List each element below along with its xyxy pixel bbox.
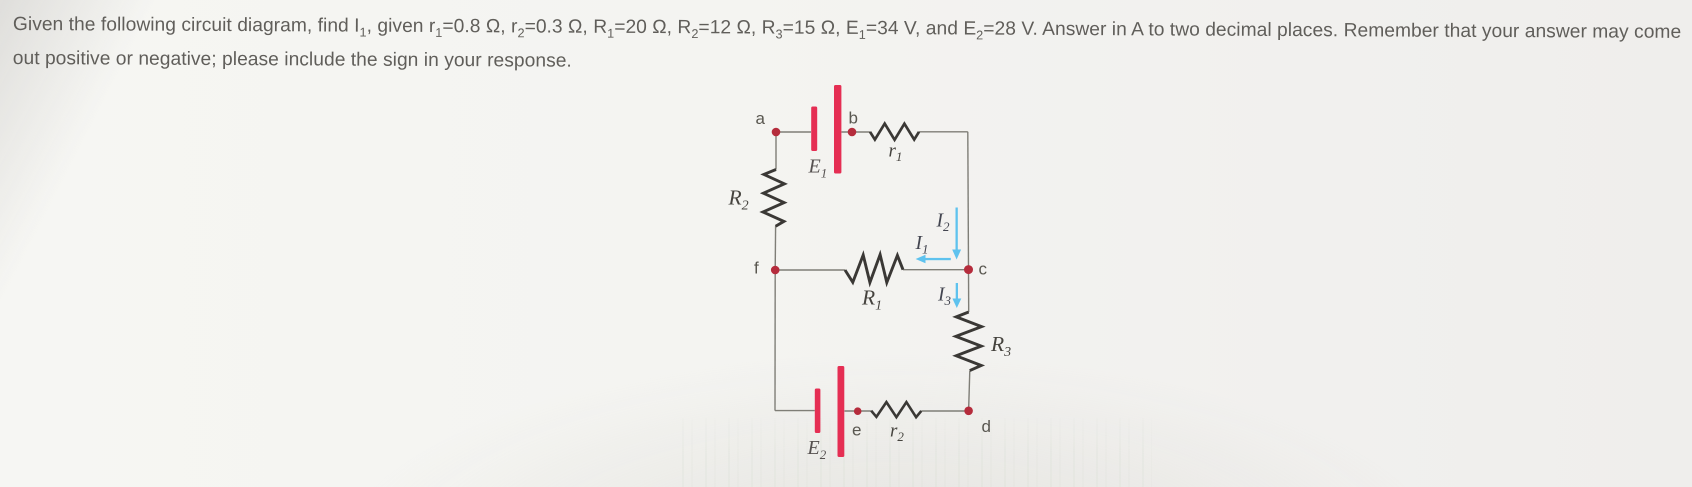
battery E2 positive plate xyxy=(838,366,845,457)
svg-text:I3: I3 xyxy=(937,285,952,309)
wire battery E2 through node e to r2 xyxy=(845,410,872,412)
svg-text:f: f xyxy=(754,259,759,278)
node d junction dot xyxy=(964,407,973,416)
svg-text:r1: r1 xyxy=(889,141,903,165)
svg-text:d: d xyxy=(982,417,991,436)
node b junction dot xyxy=(848,128,857,137)
current arrow I3 xyxy=(952,283,961,308)
svg-text:c: c xyxy=(979,260,988,279)
current arrow I2 xyxy=(952,208,961,260)
resistor R1 xyxy=(845,255,903,283)
wire R2 down to node f xyxy=(774,226,776,270)
battery E1 negative plate xyxy=(811,107,817,152)
wire r2 to node d xyxy=(921,410,968,412)
svg-text:R2: R2 xyxy=(728,186,749,214)
svg-text:e: e xyxy=(852,421,861,440)
svg-text:E1: E1 xyxy=(808,156,828,181)
svg-text:a: a xyxy=(756,109,766,128)
svg-text:R1: R1 xyxy=(861,286,882,314)
svg-text:R3: R3 xyxy=(990,332,1011,360)
wire battery E1 through node b to r1 xyxy=(842,131,871,133)
battery E1 positive plate xyxy=(834,85,841,174)
svg-text:I2: I2 xyxy=(936,211,951,235)
wire r1 to top-right corner xyxy=(919,131,968,133)
wire top-right corner down to node c xyxy=(967,132,970,270)
node f junction dot xyxy=(771,266,780,275)
svg-text:b: b xyxy=(849,109,858,128)
wire node a down to R2 xyxy=(775,132,777,170)
resistor r1 xyxy=(870,124,919,140)
resistor R2 xyxy=(763,170,785,227)
wire R1 to node c xyxy=(903,269,969,271)
svg-text:E2: E2 xyxy=(807,437,827,462)
wire R3 down to node d xyxy=(969,371,970,411)
wire node f down to bottom-left corner xyxy=(774,270,776,411)
wire node a to battery E1 xyxy=(776,131,811,133)
node c junction dot xyxy=(964,265,973,274)
svg-text:I1: I1 xyxy=(915,233,929,257)
wire node f to R1 xyxy=(775,269,845,271)
node e junction dot xyxy=(854,407,862,415)
svg-text:r2: r2 xyxy=(890,421,904,445)
wire bottom-left corner to battery E2 xyxy=(775,410,815,412)
wire node c down to R3 xyxy=(968,270,970,313)
resistor R3 xyxy=(956,312,982,371)
node a junction dot xyxy=(772,128,781,137)
resistor r2 xyxy=(871,402,921,417)
current arrow I1 xyxy=(916,255,951,263)
battery E2 negative plate xyxy=(815,389,821,434)
